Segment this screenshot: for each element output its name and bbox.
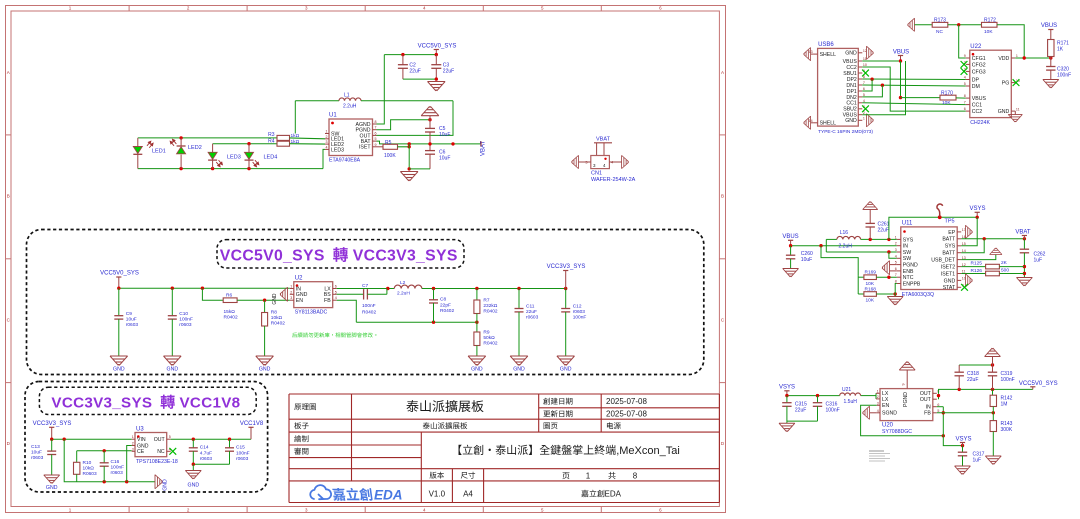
svg-text:U3: U3 [136, 427, 144, 433]
svg-text:R7: R7 [483, 298, 489, 304]
svg-text:A: A [7, 70, 10, 75]
svg-text:8: 8 [964, 94, 966, 98]
svg-text:CC1: CC1 [972, 103, 982, 109]
svg-text:R168: R168 [865, 287, 877, 293]
svg-text:VCC5V0_SYS: VCC5V0_SYS [220, 248, 325, 265]
svg-text:,MeXcon_Tai: ,MeXcon_Tai [616, 445, 680, 457]
svg-text:R6: R6 [226, 293, 232, 299]
svg-text:1uF: 1uF [973, 457, 982, 463]
svg-text:500: 500 [1001, 268, 1009, 274]
svg-text:300K: 300K [1001, 427, 1013, 433]
svg-text:U1: U1 [329, 113, 337, 119]
svg-text:4.7uF: 4.7uF [200, 450, 212, 456]
svg-text:1: 1 [290, 285, 292, 289]
svg-text:22pF: 22pF [440, 302, 451, 308]
svg-text:C16: C16 [111, 459, 120, 465]
svg-text:R0402: R0402 [362, 309, 376, 315]
svg-text:LX: LX [882, 397, 889, 403]
svg-text:3: 3 [305, 6, 308, 11]
svg-text:6: 6 [964, 107, 966, 111]
svg-text:10K: 10K [866, 298, 875, 304]
svg-text:R0402: R0402 [483, 341, 497, 347]
svg-text:10uF: 10uF [31, 450, 42, 456]
svg-text:SY8113BADC: SY8113BADC [295, 310, 328, 316]
svg-text:10K: 10K [942, 100, 951, 106]
svg-text:1: 1 [326, 130, 328, 134]
svg-text:L2: L2 [400, 280, 406, 286]
svg-text:r0603: r0603 [126, 322, 139, 328]
svg-text:EP: EP [948, 230, 955, 236]
svg-text:SHELL: SHELL [820, 121, 837, 127]
svg-text:2.2uH: 2.2uH [343, 104, 357, 110]
svg-text:GND: GND [513, 367, 525, 373]
svg-text:FB: FB [324, 298, 331, 304]
svg-text:100nF: 100nF [111, 465, 125, 471]
svg-text:R126: R126 [971, 268, 983, 274]
svg-text:VSYS: VSYS [779, 385, 795, 391]
svg-text:4: 4 [895, 254, 897, 258]
svg-text:R3: R3 [268, 132, 275, 138]
svg-text:6: 6 [335, 285, 337, 289]
svg-text:LED3: LED3 [227, 155, 241, 161]
svg-text:ETA9740E8A: ETA9740E8A [329, 158, 361, 164]
svg-text:SHELL: SHELL [820, 52, 837, 58]
svg-text:5: 5 [541, 507, 544, 512]
svg-text:LED3: LED3 [331, 147, 344, 153]
svg-text:r0603: r0603 [573, 309, 586, 315]
svg-text:2: 2 [895, 242, 897, 246]
svg-text:C: C [721, 318, 725, 323]
svg-text:BATT: BATT [942, 237, 956, 243]
svg-text:1M: 1M [1001, 402, 1008, 408]
svg-text:GND: GND [46, 485, 58, 491]
svg-text:U11: U11 [902, 221, 913, 227]
svg-text:6: 6 [659, 6, 662, 11]
svg-text:C10: C10 [179, 311, 188, 317]
svg-text:CC2: CC2 [972, 109, 982, 115]
svg-text:LED4: LED4 [264, 155, 278, 161]
svg-text:1: 1 [69, 6, 72, 11]
svg-text:C9: C9 [126, 311, 132, 317]
svg-text:1: 1 [69, 507, 72, 512]
svg-text:1: 1 [863, 117, 865, 121]
svg-text:VBUS: VBUS [972, 96, 987, 102]
svg-text:9: 9 [902, 384, 906, 386]
svg-text:R169: R169 [865, 270, 877, 276]
svg-text:STAT: STAT [943, 285, 956, 291]
svg-text:r0603: r0603 [179, 322, 192, 328]
svg-text:CH224K: CH224K [970, 120, 990, 126]
svg-text:232kΩ: 232kΩ [483, 303, 497, 309]
svg-text:5: 5 [375, 137, 377, 141]
svg-text:TPS7108E23E-18: TPS7108E23E-18 [136, 459, 178, 465]
svg-text:R9: R9 [483, 330, 489, 336]
svg-text:A4: A4 [463, 490, 473, 499]
svg-text:PGND: PGND [903, 392, 909, 407]
svg-text:U22: U22 [970, 44, 982, 50]
svg-text:11: 11 [1016, 107, 1020, 111]
svg-text:ENPPB: ENPPB [903, 281, 921, 287]
svg-text:ETA6003Q3Q: ETA6003Q3Q [902, 292, 934, 298]
svg-text:VBAT: VBAT [596, 137, 611, 143]
svg-text:L1: L1 [344, 93, 350, 99]
svg-text:A: A [721, 70, 724, 75]
svg-text:TYPE-C 16PIN 2MD(073): TYPE-C 16PIN 2MD(073) [818, 129, 873, 135]
svg-text:TP5: TP5 [945, 219, 955, 225]
svg-text:R0402: R0402 [483, 309, 497, 315]
svg-text:6: 6 [375, 131, 377, 135]
svg-text:LED1: LED1 [152, 149, 166, 155]
svg-text:VCC5V0_SYS: VCC5V0_SYS [418, 44, 457, 50]
svg-text:2025-07-08: 2025-07-08 [606, 397, 647, 406]
svg-text:2: 2 [187, 507, 190, 512]
svg-text:D: D [721, 441, 725, 446]
svg-text:2: 2 [290, 290, 292, 294]
svg-text:r0603: r0603 [526, 315, 539, 321]
svg-text:2K: 2K [1001, 260, 1008, 266]
svg-text:1: 1 [586, 472, 591, 481]
svg-text:4: 4 [335, 296, 337, 300]
svg-text:100nF: 100nF [573, 315, 587, 321]
svg-text:1: 1 [132, 435, 134, 439]
svg-text:100nF: 100nF [1057, 73, 1071, 79]
svg-text:U20: U20 [882, 422, 894, 428]
svg-text:10kΩ: 10kΩ [271, 315, 283, 321]
svg-text:2.2uH: 2.2uH [397, 291, 410, 297]
svg-text:4: 4 [326, 145, 328, 149]
svg-text:6: 6 [895, 267, 897, 271]
svg-text:22uF: 22uF [443, 68, 454, 74]
svg-text:5: 5 [169, 435, 171, 439]
svg-text:GND: GND [272, 293, 278, 305]
svg-text:R0402: R0402 [224, 315, 238, 321]
svg-text:1kΩ: 1kΩ [291, 133, 300, 139]
svg-text:V1.0: V1.0 [429, 490, 446, 499]
svg-text:NC: NC [157, 449, 165, 455]
svg-text:VCC3V3_SYS: VCC3V3_SYS [547, 264, 586, 270]
svg-text:R0402: R0402 [271, 321, 285, 327]
svg-text:USB6: USB6 [818, 42, 834, 48]
svg-text:2: 2 [877, 395, 879, 399]
svg-text:2: 2 [132, 442, 134, 446]
svg-text:C15: C15 [236, 445, 245, 451]
svg-text:SYS: SYS [903, 237, 914, 243]
svg-text:10uF: 10uF [801, 257, 812, 263]
svg-text:CFG3: CFG3 [972, 69, 986, 75]
svg-text:4: 4 [964, 76, 966, 80]
svg-text:7: 7 [895, 273, 897, 277]
svg-text:22uF: 22uF [526, 309, 537, 315]
svg-text:22uF: 22uF [878, 227, 889, 233]
svg-text:1: 1 [877, 389, 879, 393]
svg-text:IN: IN [903, 244, 908, 250]
svg-text:10K: 10K [984, 29, 993, 35]
svg-text:5: 5 [541, 6, 544, 11]
svg-text:C12: C12 [573, 304, 582, 310]
svg-text:5: 5 [895, 261, 897, 265]
svg-text:3: 3 [895, 248, 897, 252]
svg-text:C11: C11 [526, 304, 535, 310]
svg-text:10uF: 10uF [439, 132, 450, 138]
svg-text:4: 4 [877, 409, 879, 413]
svg-text:10uF: 10uF [126, 317, 137, 323]
svg-text:3: 3 [326, 140, 328, 144]
svg-text:9: 9 [375, 143, 377, 147]
svg-text:VCC5V0_SYS: VCC5V0_SYS [1019, 381, 1058, 387]
svg-text:8: 8 [633, 472, 638, 481]
svg-text:R172: R172 [984, 17, 996, 23]
svg-text:U21: U21 [842, 387, 851, 393]
svg-text:R0402: R0402 [440, 308, 454, 314]
svg-text:VBUS: VBUS [1041, 23, 1057, 29]
svg-text:VSYS: VSYS [969, 206, 985, 212]
svg-text:R10: R10 [83, 460, 92, 466]
svg-text:EN: EN [296, 298, 303, 304]
svg-text:SGND: SGND [882, 411, 897, 417]
svg-text:r0603: r0603 [236, 456, 249, 462]
svg-text:GND: GND [560, 367, 572, 373]
svg-text:VCC1V8: VCC1V8 [180, 395, 241, 412]
svg-text:1uF: 1uF [1034, 258, 1043, 264]
svg-text:FB: FB [924, 411, 931, 417]
svg-text:VBUS: VBUS [893, 49, 909, 55]
svg-text:CE: CE [137, 449, 145, 455]
svg-text:3: 3 [305, 507, 308, 512]
svg-text:GND: GND [845, 51, 857, 57]
svg-text:1kΩ: 1kΩ [291, 139, 300, 145]
svg-text:BATT: BATT [942, 251, 956, 257]
svg-text:50kΩ: 50kΩ [483, 335, 495, 341]
svg-text:C8: C8 [440, 297, 446, 303]
svg-text:GND: GND [471, 367, 483, 373]
svg-text:R0603: R0603 [83, 471, 97, 477]
svg-text:3: 3 [290, 296, 292, 300]
svg-text:2: 2 [326, 135, 328, 139]
svg-text:GND: GND [944, 278, 956, 284]
svg-text:8: 8 [375, 120, 377, 124]
svg-text:D: D [7, 441, 11, 446]
svg-text:EDA: EDA [605, 490, 622, 499]
svg-text:GND: GND [113, 367, 125, 373]
svg-text:VCC3V3_SYS: VCC3V3_SYS [51, 395, 152, 412]
svg-text:OUT: OUT [920, 397, 932, 403]
svg-text:SYS: SYS [945, 244, 956, 250]
svg-text:2: 2 [187, 6, 190, 11]
svg-text:GND: GND [163, 479, 169, 491]
svg-text:ISET: ISET [359, 145, 371, 151]
svg-text:4: 4 [423, 6, 426, 11]
svg-text:3: 3 [877, 401, 879, 405]
svg-text:L16: L16 [840, 230, 849, 236]
svg-text:GND: GND [259, 367, 271, 373]
svg-text:10uF: 10uF [439, 156, 450, 162]
svg-text:SY7088DGC: SY7088DGC [882, 429, 912, 435]
svg-text:5: 5 [964, 82, 966, 86]
svg-text:IN: IN [926, 405, 931, 411]
svg-text:GND: GND [167, 367, 179, 373]
svg-text:DM: DM [972, 84, 980, 90]
svg-text:7: 7 [375, 126, 377, 130]
svg-text:C14: C14 [200, 445, 209, 451]
svg-text:ISET1: ISET1 [941, 271, 956, 277]
svg-text:VCC1V8: VCC1V8 [240, 421, 264, 427]
svg-text:VSYS: VSYS [955, 437, 971, 443]
svg-text:10K: 10K [866, 281, 875, 287]
svg-text:r0603: r0603 [200, 456, 213, 462]
svg-text:100nF: 100nF [179, 317, 193, 323]
svg-text:15: 15 [962, 242, 966, 246]
svg-text:VBUS: VBUS [782, 234, 798, 240]
svg-text:r0603: r0603 [31, 455, 44, 461]
svg-text:C: C [7, 318, 11, 323]
svg-text:SW: SW [903, 250, 911, 256]
svg-text:GND: GND [188, 483, 200, 489]
svg-text:100nF: 100nF [236, 450, 250, 456]
svg-text:C7: C7 [362, 283, 368, 289]
svg-text:4: 4 [423, 507, 426, 512]
svg-text:ISET2: ISET2 [941, 265, 956, 271]
svg-text:9: 9 [964, 54, 966, 58]
svg-text:R8: R8 [271, 310, 277, 316]
svg-text:SW: SW [903, 256, 911, 262]
svg-text:15kΩ: 15kΩ [224, 309, 236, 315]
svg-text:100nF: 100nF [1001, 377, 1015, 383]
svg-text:OUT: OUT [154, 437, 166, 443]
svg-text:VDD: VDD [998, 56, 1009, 62]
svg-text:1: 1 [895, 235, 897, 239]
svg-text:PG: PG [1002, 81, 1010, 87]
svg-text:100nF: 100nF [826, 408, 840, 414]
svg-text:EN: EN [882, 403, 889, 409]
svg-text:LED2: LED2 [188, 145, 202, 151]
svg-text:DP: DP [972, 77, 980, 83]
svg-text:10kΩ: 10kΩ [83, 466, 95, 472]
svg-text:NC: NC [936, 29, 943, 35]
svg-text:r0603: r0603 [111, 470, 124, 476]
svg-text:VCC3V3_SYS: VCC3V3_SYS [353, 248, 458, 265]
svg-text:GND: GND [998, 109, 1010, 115]
svg-text:ENB: ENB [903, 269, 914, 275]
svg-text:VBAT: VBAT [1015, 230, 1031, 236]
svg-text:CFG1: CFG1 [972, 56, 986, 62]
svg-text:1.5uH: 1.5uH [844, 399, 858, 405]
svg-text:100nF: 100nF [362, 303, 376, 309]
svg-text:2025-07-08: 2025-07-08 [606, 410, 647, 419]
svg-text:C13: C13 [31, 444, 40, 450]
svg-text:2.2uH: 2.2uH [839, 244, 853, 250]
svg-text:WAFER-254W-2A: WAFER-254W-2A [591, 177, 636, 183]
svg-text:CFG2: CFG2 [972, 62, 986, 68]
svg-text:R170: R170 [941, 91, 953, 97]
svg-text:R5: R5 [385, 140, 392, 146]
svg-text:3: 3 [132, 447, 134, 451]
svg-text:22uF: 22uF [795, 408, 806, 414]
svg-text:R125: R125 [971, 261, 983, 267]
svg-text:VCC3V3_SYS: VCC3V3_SYS [33, 421, 72, 427]
svg-text:NTC: NTC [903, 275, 914, 281]
svg-text:5: 5 [335, 290, 337, 294]
svg-text:U2: U2 [295, 276, 303, 282]
svg-text:B: B [7, 194, 10, 199]
svg-text:B: B [721, 194, 724, 199]
svg-text:R173: R173 [934, 17, 946, 23]
svg-text:22uF: 22uF [409, 68, 420, 74]
svg-text:100K: 100K [384, 153, 396, 159]
svg-text:EDA: EDA [374, 488, 403, 503]
svg-text:7: 7 [964, 101, 966, 105]
svg-text:VCC5V0_SYS: VCC5V0_SYS [100, 271, 139, 277]
svg-text:1K: 1K [1057, 47, 1064, 53]
svg-text:CN1: CN1 [591, 171, 602, 177]
svg-text:USB_DET: USB_DET [931, 258, 956, 264]
svg-text:22uF: 22uF [967, 377, 978, 383]
svg-text:PGND: PGND [903, 263, 918, 269]
svg-text:VIN: VIN [137, 437, 146, 443]
svg-text:GND: GND [845, 118, 857, 124]
svg-text:R4: R4 [268, 138, 275, 144]
svg-text:8: 8 [895, 280, 897, 284]
svg-text:6: 6 [659, 507, 662, 512]
